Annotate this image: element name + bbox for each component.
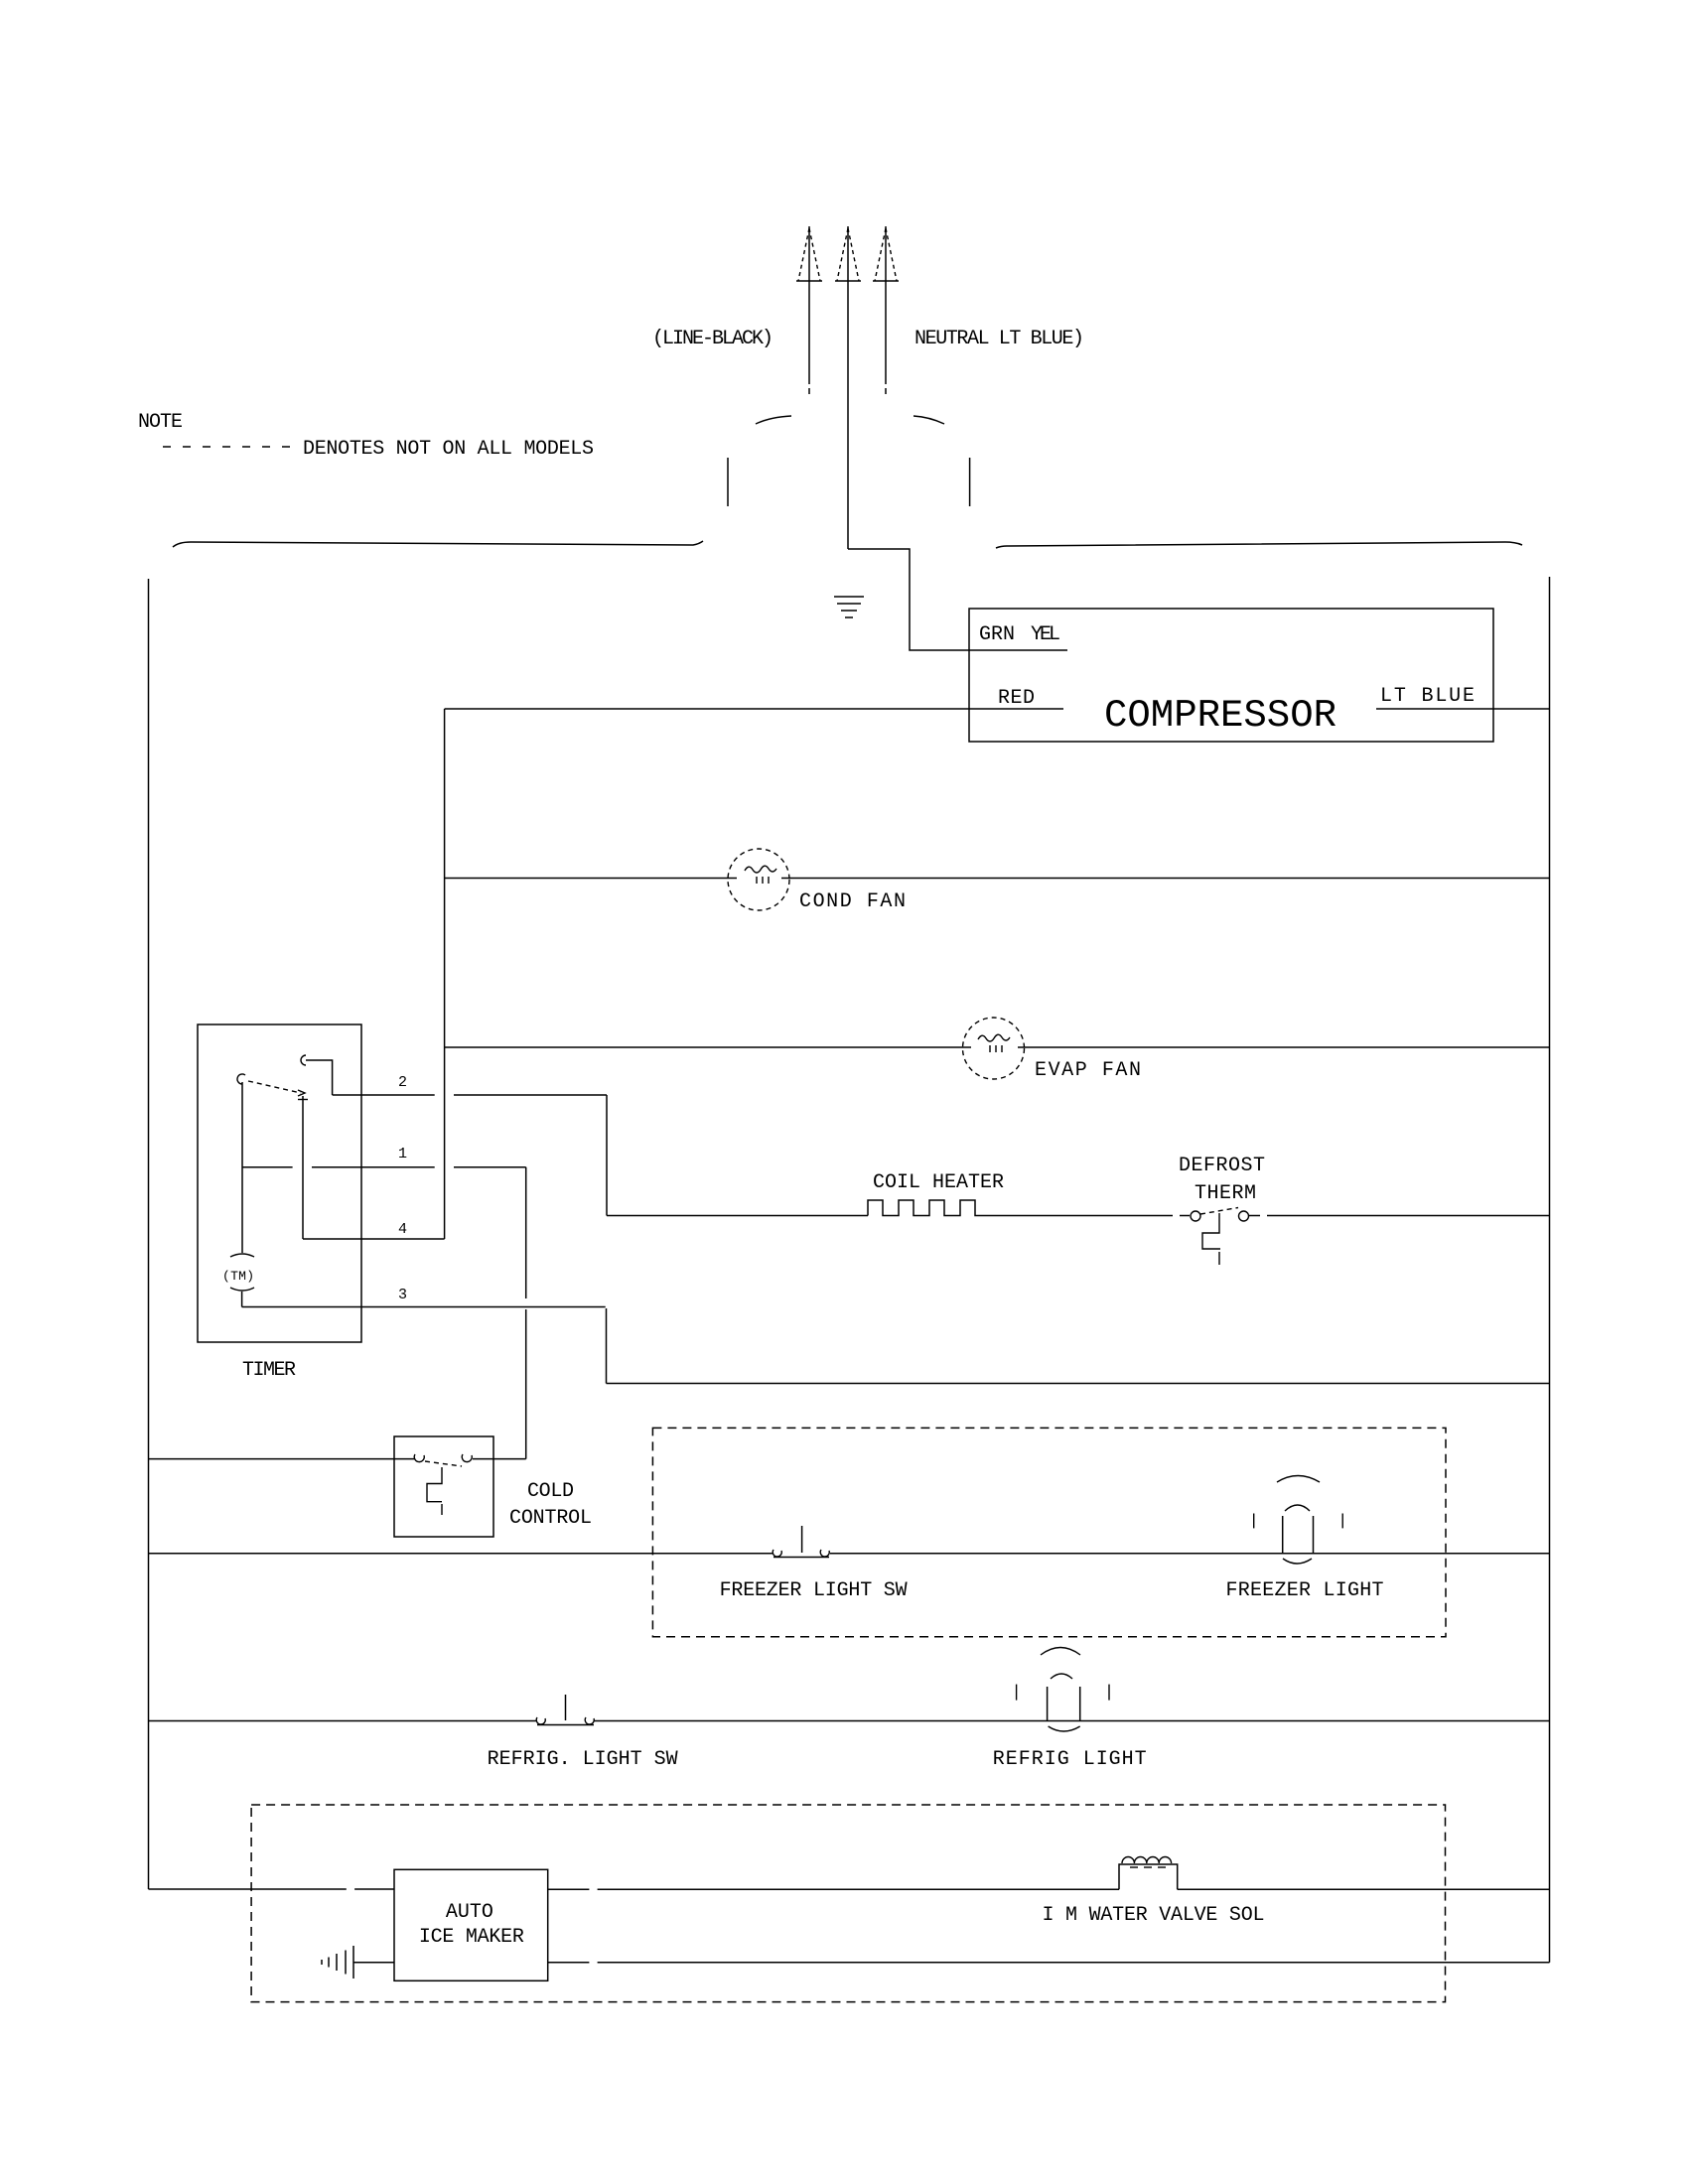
dashed box: icemaker circuit (not on all models) — [251, 1805, 1445, 2002]
wire: ground branch to compressor shell — [848, 549, 1067, 650]
wire: lt blue lead compressor to neutral bus — [1376, 708, 1550, 710]
svg-text:I M WATER VALVE SOL: I M WATER VALVE SOL — [1043, 1904, 1265, 1927]
svg-text:COIL HEATER: COIL HEATER — [873, 1171, 1004, 1194]
svg-text:FREEZER LIGHT: FREEZER LIGHT — [1226, 1579, 1384, 1602]
wire: refrig light row left — [149, 1720, 538, 1722]
switch: defrost thermostat — [1191, 1208, 1550, 1266]
svg-text:(LINE-BLACK): (LINE-BLACK) — [652, 328, 774, 350]
svg-text:REFRIG. LIGHT SW: REFRIG. LIGHT SW — [488, 1748, 678, 1771]
ground (plug) — [834, 597, 864, 617]
wire: icemaker return to neutral bus — [548, 1962, 1550, 1964]
note text — [138, 411, 594, 461]
svg-text:LT BLUE: LT BLUE — [1380, 685, 1475, 708]
plug prong left (line) — [796, 226, 822, 394]
wire: icemaker to water valve — [548, 1888, 1119, 1890]
wire: icemaker ground lead — [353, 1962, 394, 1964]
motor COND FAN — [728, 849, 789, 910]
svg-text:EVAP FAN: EVAP FAN — [1035, 1059, 1141, 1082]
resistor: defrost coil heater — [607, 1200, 1190, 1216]
svg-text:COLD: COLD — [527, 1480, 574, 1503]
lamp: freezer light — [1254, 1476, 1343, 1565]
svg-text:NOTE: NOTE — [138, 411, 183, 434]
wire: bottom line bus to icemaker — [149, 1888, 395, 1890]
wire: terminal 2 to defrost heater — [333, 1095, 607, 1216]
motor EVAP FAN — [963, 1018, 1025, 1079]
svg-text:REFRIG LIGHT: REFRIG LIGHT — [993, 1748, 1147, 1771]
solenoid: icemaker water valve — [1119, 1857, 1178, 1890]
dashed box: freezer light circuit (not on all models) — [652, 1428, 1446, 1636]
svg-text:(TM): (TM) — [222, 1269, 254, 1284]
svg-text:3: 3 — [398, 1287, 407, 1303]
svg-text:CONTROL: CONTROL — [509, 1507, 592, 1530]
wire: terminal 3 to neutral bus — [242, 1307, 1550, 1384]
lamp: refrig light — [1017, 1648, 1109, 1732]
svg-text:COND FAN: COND FAN — [799, 890, 906, 913]
wire: freezer light row left — [149, 1553, 774, 1555]
svg-text:1: 1 — [398, 1146, 407, 1162]
wire: refrig light row right — [594, 1720, 1550, 1722]
switch: refrig light SW — [536, 1695, 594, 1725]
timer switch common pivot — [237, 1074, 245, 1253]
wire: right main vertical (neutral bus) — [1549, 577, 1551, 1963]
timer contact terminal 4 — [298, 1090, 308, 1239]
switch: freezer light SW — [773, 1526, 829, 1558]
compressor U1 box — [969, 609, 1493, 742]
label GRN YEL — [979, 623, 1060, 646]
svg-text:NEUTRAL LT BLUE): NEUTRAL LT BLUE) — [914, 328, 1084, 350]
ground (icemaker) — [322, 1946, 353, 1979]
svg-text:2: 2 — [398, 1074, 407, 1091]
wire: water valve to neutral bus — [1178, 1888, 1550, 1890]
svg-text:COMPRESSOR: COMPRESSOR — [1104, 694, 1336, 738]
svg-text:YEL: YEL — [1031, 623, 1060, 646]
plug body outline fragments — [728, 416, 970, 506]
cold control box — [394, 1436, 493, 1537]
svg-text:TIMER: TIMER — [242, 1359, 296, 1382]
wire: freezer light row right — [830, 1553, 1550, 1555]
svg-text:4: 4 — [398, 1221, 407, 1238]
timer box — [198, 1024, 361, 1342]
svg-text:ICE MAKER: ICE MAKER — [419, 1926, 524, 1949]
wire: right brace (neutral cord) — [996, 542, 1522, 548]
svg-text:DENOTES NOT ON ALL MODELS: DENOTES NOT ON ALL MODELS — [303, 438, 594, 461]
svg-text:FREEZER LIGHT SW: FREEZER LIGHT SW — [720, 1579, 908, 1602]
wire: red lead from main vertical to compressor — [445, 708, 1063, 710]
wire: left brace (line cord) — [173, 541, 703, 547]
svg-text:RED: RED — [998, 687, 1035, 710]
timer contact terminal 2 — [301, 1055, 333, 1095]
svg-text:GRN: GRN — [979, 623, 1015, 646]
svg-text:AUTO: AUTO — [446, 1901, 493, 1924]
wire: evaporator fan row — [445, 1046, 1550, 1048]
timer motor TM — [222, 1254, 254, 1307]
plug prong right (neutral) — [873, 226, 899, 394]
timer switch arm (dashed alternate position) — [248, 1081, 301, 1093]
svg-text:THERM: THERM — [1195, 1182, 1256, 1205]
plug prong middle (ground) — [835, 226, 861, 549]
wire: line bus to cold control — [149, 1458, 416, 1460]
switch: cold control — [414, 1454, 525, 1515]
wire: terminal 4 to center vertical — [303, 1238, 445, 1240]
wire: terminal 1 to cold control — [242, 1167, 526, 1459]
auto ice maker box — [394, 1869, 548, 1980]
wire: left main vertical (line bus) — [148, 579, 150, 1889]
wire: center vertical from red lead down to timer terminal 4 — [444, 709, 446, 1239]
wire: condenser fan row — [445, 878, 1550, 880]
svg-text:DEFROST: DEFROST — [1179, 1155, 1265, 1177]
